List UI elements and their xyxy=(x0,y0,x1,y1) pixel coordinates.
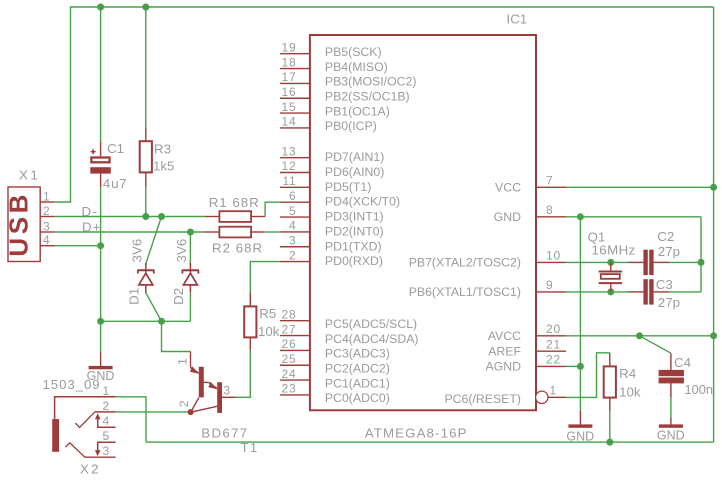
svg-text:AREF: AREF xyxy=(488,345,521,359)
wire C1 column upper segment xyxy=(100,7,102,142)
junction GND column at pin8 xyxy=(577,213,584,220)
junction crystal top xyxy=(607,259,614,266)
wire USB pin4 to GND column xyxy=(55,245,101,247)
pin 5 PD3(INT1) xyxy=(280,204,384,224)
wire D+ down to D2 xyxy=(189,232,191,264)
pin 24 PC1(ADC1) xyxy=(280,367,390,391)
wire C2 right lead to GND drop xyxy=(669,261,702,263)
wire right VCC rail down the right side xyxy=(713,7,715,442)
resistor R3 xyxy=(140,128,152,188)
wire IC pin22 AGND to GND column xyxy=(566,365,580,367)
svg-text:PB7(XTAL2/TOSC2): PB7(XTAL2/TOSC2) xyxy=(409,256,521,270)
svg-text:1: 1 xyxy=(103,384,110,398)
label Q1 xyxy=(588,229,606,244)
svg-text:17: 17 xyxy=(282,70,297,84)
label IC1 xyxy=(507,12,528,27)
wire X2 pin2 to T1 emitter xyxy=(116,411,191,413)
svg-text:ATMEGA8-16P: ATMEGA8-16P xyxy=(365,425,468,440)
svg-text:AVCC: AVCC xyxy=(488,329,521,343)
label 100n xyxy=(685,382,713,397)
wire C3 right lead to GND drop xyxy=(669,291,702,293)
junction D2 tap on D+ net xyxy=(187,229,194,236)
svg-text:24: 24 xyxy=(282,367,297,381)
svg-text:1: 1 xyxy=(550,384,557,398)
wire IC pin10 XTAL2 xyxy=(566,261,629,263)
svg-text:1: 1 xyxy=(175,358,189,365)
wire R5 bottom to T1 collector xyxy=(236,351,251,398)
wire C1 bottom to GND symbol xyxy=(100,187,102,353)
svg-text:PB5(SCK): PB5(SCK) xyxy=(325,45,382,59)
svg-text:C4: C4 xyxy=(674,355,691,370)
svg-text:PC0(ADC0): PC0(ADC0) xyxy=(325,391,390,405)
svg-text:2: 2 xyxy=(103,399,110,413)
wire R4 bottom to GND rail xyxy=(609,411,611,442)
label D2 xyxy=(171,288,186,305)
svg-text:R3: R3 xyxy=(154,141,171,156)
wire diode junction to T1 base xyxy=(162,321,191,351)
label 1 base pin of T1 xyxy=(175,358,189,365)
ground under C4 xyxy=(657,418,685,443)
svg-text:GND: GND xyxy=(87,369,115,383)
transistor T1 BD677 xyxy=(188,352,236,416)
label C3 xyxy=(656,277,673,292)
svg-text:C1: C1 xyxy=(107,141,124,156)
svg-text:R2 68R: R2 68R xyxy=(212,241,263,256)
svg-text:12: 12 xyxy=(282,159,297,173)
svg-text:PB4(MISO): PB4(MISO) xyxy=(325,60,388,74)
svg-text:8: 8 xyxy=(546,203,553,217)
svg-text:20: 20 xyxy=(546,322,561,336)
resistor R5 xyxy=(244,292,256,350)
wire X2 pin1 to bottom GND rail xyxy=(116,397,146,442)
svg-text:2: 2 xyxy=(177,400,191,407)
svg-text:C2: C2 xyxy=(657,229,674,244)
label C4 xyxy=(674,355,691,370)
svg-text:3V6: 3V6 xyxy=(129,239,144,263)
capacitor C1 xyxy=(90,142,111,187)
wire bottom GND rail xyxy=(146,441,714,443)
pin 25 PC2(ADC2) xyxy=(280,352,390,376)
junction AVCC at C4 tap xyxy=(636,332,643,339)
svg-text:GND: GND xyxy=(566,430,594,444)
svg-text:C3: C3 xyxy=(656,277,673,292)
connector X2 jack xyxy=(52,384,115,458)
pin 22 AGND xyxy=(485,353,566,374)
svg-text:R1 68R: R1 68R xyxy=(209,195,260,210)
svg-text:2: 2 xyxy=(289,248,296,262)
pin 3 PD1(TXD) xyxy=(280,233,382,253)
capacitor C2 xyxy=(629,250,669,275)
svg-text:10k: 10k xyxy=(619,385,641,400)
svg-text:23: 23 xyxy=(282,382,297,396)
label X1 xyxy=(19,168,40,183)
pin 28 PC5(ADC5/SCL) xyxy=(280,307,417,331)
svg-text:PC5(ADC5/SCL): PC5(ADC5/SCL) xyxy=(325,317,417,331)
pin 9 PB6(XTAL1/TOSC1) xyxy=(409,278,566,299)
wire IC pin1 RESET to R4 xyxy=(566,353,610,398)
junction diode net on GND column xyxy=(97,318,104,325)
svg-text:PC3(ADC3): PC3(ADC3) xyxy=(325,347,390,361)
svg-text:PB1(OC1A): PB1(OC1A) xyxy=(325,104,390,118)
svg-text:BD677: BD677 xyxy=(201,425,248,440)
junction top rail at R3 column xyxy=(142,4,149,11)
svg-text:11: 11 xyxy=(282,174,296,188)
svg-text:PC4(ADC4/SDA): PC4(ADC4/SDA) xyxy=(325,332,419,346)
pin 12 PD6(AIN0) xyxy=(280,159,384,179)
wire GND column down to GND symbol xyxy=(579,217,581,411)
label 1k5 xyxy=(153,159,174,174)
svg-text:5: 5 xyxy=(103,429,110,443)
svg-text:GND: GND xyxy=(657,429,685,443)
label R1 68R xyxy=(209,195,260,210)
label 27p of C2 xyxy=(658,244,680,259)
svg-text:21: 21 xyxy=(546,337,561,351)
svg-text:4: 4 xyxy=(289,219,296,233)
wire VCC top rail from USB pin1 up and across to right rail xyxy=(55,7,714,202)
label 27p of C3 xyxy=(658,295,680,310)
svg-text:PB3(MOSI/OC2): PB3(MOSI/OC2) xyxy=(325,75,417,89)
wire D- net from USB pin2 to R1 xyxy=(55,216,205,218)
pin 7 VCC xyxy=(495,174,566,195)
svg-text:D+: D+ xyxy=(82,220,101,235)
svg-text:X2: X2 xyxy=(80,462,101,477)
wire IC pin8 GND across xyxy=(566,216,701,218)
pin 21 AREF xyxy=(488,337,566,358)
svg-text:PB6(XTAL1/TOSC1): PB6(XTAL1/TOSC1) xyxy=(409,285,521,299)
label T1 xyxy=(241,440,259,455)
pin 6 PD4(XCK/T0) xyxy=(280,189,400,209)
junction AVCC right rail xyxy=(710,332,717,339)
svg-text:15: 15 xyxy=(282,100,297,114)
label C1 xyxy=(107,141,124,156)
svg-text:PD6(AIN0): PD6(AIN0) xyxy=(325,165,384,179)
svg-text:VCC: VCC xyxy=(495,181,521,195)
label 4u7 xyxy=(103,176,128,191)
svg-text:4: 4 xyxy=(103,414,110,428)
label D+ xyxy=(82,220,101,235)
svg-text:3: 3 xyxy=(289,233,296,247)
label 10k of R4 xyxy=(619,385,641,400)
svg-text:PB0(ICP): PB0(ICP) xyxy=(325,119,377,133)
wire D+ net from USB pin3 to R2 xyxy=(55,231,205,233)
svg-text:13: 13 xyxy=(282,144,297,158)
junction diodes common xyxy=(158,318,165,325)
label 3 collector pin of T1 xyxy=(223,383,230,397)
svg-text:14: 14 xyxy=(282,115,297,129)
svg-text:2: 2 xyxy=(43,204,50,218)
resistor R4 xyxy=(604,353,616,411)
label R4 xyxy=(619,366,636,381)
svg-text:3V6: 3V6 xyxy=(174,239,189,263)
svg-text:PD2(INT0): PD2(INT0) xyxy=(325,224,384,238)
svg-text:PB2(SS/OC1B): PB2(SS/OC1B) xyxy=(325,89,410,103)
label R3 xyxy=(154,141,171,156)
label X2 xyxy=(80,462,101,477)
svg-text:PD1(TXD): PD1(TXD) xyxy=(325,239,382,253)
wire GND net down right of C2 C3 xyxy=(700,217,702,292)
pin 14 PB0(ICP) xyxy=(280,115,377,133)
svg-text:28: 28 xyxy=(282,307,297,321)
wire C4 bottom segment xyxy=(670,398,672,418)
pin 13 PD7(AIN1) xyxy=(280,144,384,164)
pin 18 PB4(MISO) xyxy=(280,55,388,74)
svg-text:D-: D- xyxy=(82,204,99,219)
label 16MHz xyxy=(592,243,636,258)
svg-text:27: 27 xyxy=(282,322,297,336)
label 2 emitter pin of T1 xyxy=(177,400,191,407)
pin 16 PB2(SS/OC1B) xyxy=(280,85,410,104)
capacitor C3 xyxy=(629,279,669,304)
label 3V6 of D1 xyxy=(129,239,144,263)
svg-text:PC2(ADC2): PC2(ADC2) xyxy=(325,361,390,375)
pin 19 PB5(SCK) xyxy=(280,40,382,59)
label R2 68R xyxy=(212,241,263,256)
svg-text:PD0(RXD): PD0(RXD) xyxy=(325,254,383,268)
svg-text:D1: D1 xyxy=(126,288,141,305)
junction USB pin4 / C1 GND column xyxy=(97,242,104,249)
svg-text:AGND: AGND xyxy=(485,360,521,374)
svg-text:5: 5 xyxy=(289,204,296,218)
pin 11 PD5(T1) xyxy=(280,174,371,194)
svg-text:3: 3 xyxy=(43,219,50,233)
crystal Q1 16MHz xyxy=(599,262,623,292)
junction AGND pin22 tap xyxy=(577,363,584,370)
op-amp U1 IC1 ATMEGA8 box xyxy=(310,35,536,410)
pin 2 PD0(RXD) xyxy=(280,248,383,268)
svg-text:D2: D2 xyxy=(171,288,186,305)
svg-text:18: 18 xyxy=(282,55,297,69)
svg-text:25: 25 xyxy=(282,352,297,366)
pin 15 PB1(OC1A) xyxy=(280,100,390,119)
junction R4 on GND rail xyxy=(606,439,613,446)
wire R1 to IC pin6 xyxy=(265,202,280,216)
svg-text:10: 10 xyxy=(546,249,561,263)
svg-text:PC1(ADC1): PC1(ADC1) xyxy=(325,376,390,390)
resistor R2 xyxy=(205,227,265,238)
wire R3 bottom to D- net xyxy=(145,187,147,216)
pin 17 PB3(MOSI/OC2) xyxy=(280,70,416,89)
label D- xyxy=(82,204,99,219)
label 10k of R5 xyxy=(258,324,280,339)
pin 20 AVCC xyxy=(488,322,566,343)
svg-text:100n: 100n xyxy=(685,382,713,397)
svg-text:1k5: 1k5 xyxy=(153,159,174,174)
svg-text:GND: GND xyxy=(494,210,521,224)
wire IC pin7 VCC to right rail xyxy=(566,186,714,188)
svg-text:9: 9 xyxy=(546,278,553,292)
wire D2 junction across to GND column xyxy=(101,320,191,322)
junction D1 tap on D- net xyxy=(158,213,165,220)
label ATMEGA8-16P xyxy=(365,425,468,440)
wire diagonal AVCC to C4 xyxy=(640,336,671,353)
svg-text:10k: 10k xyxy=(258,324,280,339)
svg-text:4: 4 xyxy=(43,233,50,247)
label C2 xyxy=(657,229,674,244)
junction C2 right xyxy=(698,259,705,266)
label D1 xyxy=(126,288,141,305)
svg-text:4u7: 4u7 xyxy=(103,176,128,191)
svg-text:IC1: IC1 xyxy=(507,12,528,27)
svg-text:16MHz: 16MHz xyxy=(592,243,636,258)
svg-text:PD3(INT1): PD3(INT1) xyxy=(325,210,384,224)
wire IC pin20 AVCC to right rail xyxy=(566,335,714,337)
junction VCC right rail xyxy=(710,184,717,191)
junction R3 on D- net xyxy=(142,213,149,220)
svg-text:PD4(XCK/T0): PD4(XCK/T0) xyxy=(325,195,400,209)
wire IC pin9 XTAL1 xyxy=(566,291,629,293)
pin 4 PD2(INT0) xyxy=(280,219,384,239)
svg-text:27p: 27p xyxy=(658,295,680,310)
svg-text:1: 1 xyxy=(43,189,50,203)
diode D2 zener 3V6 xyxy=(182,263,199,293)
pin 1 PC6(/RESET) xyxy=(444,384,566,406)
wire D1 anode diagonal to junction xyxy=(146,293,162,322)
svg-text:USB: USB xyxy=(3,191,33,257)
ground under USB xyxy=(87,353,115,384)
svg-text:3: 3 xyxy=(103,444,110,458)
junction crystal bottom xyxy=(607,288,614,295)
pin 10 PB7(XTAL2/TOSC2) xyxy=(409,249,566,270)
svg-text:3: 3 xyxy=(223,383,230,397)
svg-text:PD7(AIN1): PD7(AIN1) xyxy=(325,150,384,164)
ground under IC pin8 column xyxy=(566,411,594,444)
label R5 xyxy=(259,306,276,321)
svg-text:22: 22 xyxy=(546,353,561,367)
svg-text:PC6(/RESET): PC6(/RESET) xyxy=(444,392,521,406)
pin 8 GND xyxy=(494,203,566,224)
svg-text:X1: X1 xyxy=(19,168,40,183)
svg-text:7: 7 xyxy=(546,174,553,188)
wire R3 column upper segment xyxy=(145,7,147,128)
connector X1 USB xyxy=(3,187,54,262)
label 1503_09 xyxy=(43,377,101,392)
svg-text:R5: R5 xyxy=(259,306,276,321)
wire diagonal D- to D1 xyxy=(146,217,162,264)
wire D2 anode down xyxy=(189,293,191,322)
svg-text:6: 6 xyxy=(289,189,296,203)
svg-text:R4: R4 xyxy=(619,366,636,381)
wire IC pin2 PD0 to R5 top xyxy=(250,262,280,293)
svg-text:19: 19 xyxy=(282,40,297,54)
pin 23 PC0(ADC0) xyxy=(280,382,390,406)
svg-text:26: 26 xyxy=(282,337,297,351)
svg-text:PD5(T1): PD5(T1) xyxy=(325,180,371,194)
svg-text:27p: 27p xyxy=(658,244,680,259)
svg-text:16: 16 xyxy=(282,85,297,99)
label 3V6 of D2 xyxy=(174,239,189,263)
label BD677 xyxy=(201,425,248,440)
diode D1 zener 3V6 xyxy=(137,263,154,293)
resistor R1 xyxy=(205,211,266,222)
pin 26 PC3(ADC3) xyxy=(280,337,390,361)
capacitor C4 xyxy=(659,353,684,397)
junction top rail at C1 column xyxy=(97,4,104,11)
wire R2 to IC pin4 xyxy=(265,231,280,233)
svg-text:T1: T1 xyxy=(241,440,259,455)
pin 27 PC4(ADC4/SDA) xyxy=(280,322,419,346)
